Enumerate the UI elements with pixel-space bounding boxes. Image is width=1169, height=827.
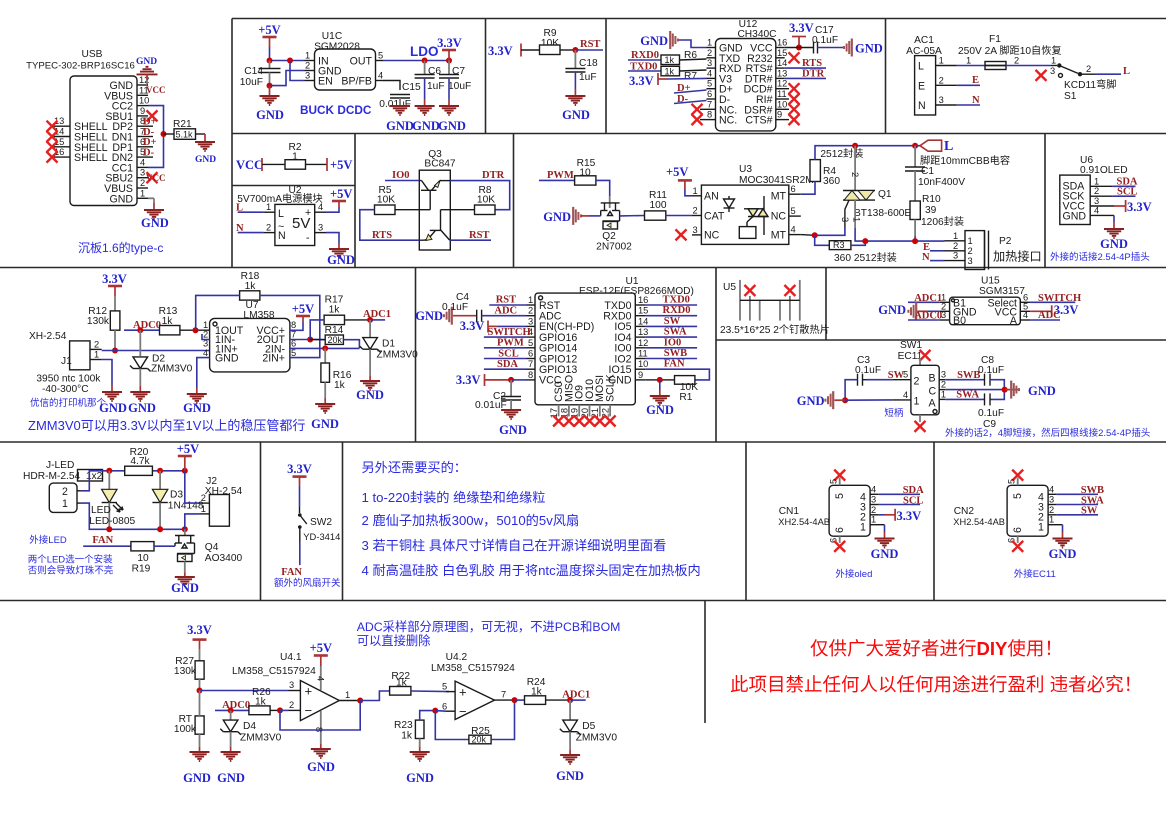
svg-text:J-LED: J-LED [46, 460, 74, 471]
svg-text:1: 1 [871, 515, 876, 525]
wire v-divider esp/u5 [715, 268, 717, 443]
ground C18 [565, 96, 585, 105]
wire v-divider cn1/cn2 [933, 442, 935, 601]
svg-text:ADC: ADC [494, 305, 517, 316]
svg-text:1: 1 [1094, 176, 1099, 186]
svg-text:1: 1 [140, 188, 145, 198]
wire Q2 drain to R11 [620, 215, 645, 217]
svg-text:2: 2 [953, 241, 958, 251]
svg-text:1: 1 [693, 186, 698, 196]
svg-text:沉板1.6的type-c: 沉板1.6的type-c [78, 240, 163, 255]
wire v-divider ch340/ac [885, 19, 887, 134]
svg-text:5: 5 [442, 682, 447, 692]
resistor R3 360 [815, 235, 830, 245]
svg-text:3.3V: 3.3V [629, 74, 654, 88]
wire pin3 EN up [290, 61, 305, 81]
svg-text:2: 2 [528, 306, 533, 316]
svg-text:OUT: OUT [350, 56, 373, 68]
svg-text:2: 2 [201, 493, 206, 503]
svg-text:VCC: VCC [236, 158, 263, 172]
svg-text:20k: 20k [328, 335, 343, 345]
wire pin2 up to +5V rail [82, 471, 185, 491]
svg-text:5V: 5V [292, 215, 310, 232]
svg-text:1: 1 [1038, 522, 1044, 534]
power 3.3V pin2 [879, 514, 885, 516]
svg-text:RST: RST [496, 295, 516, 306]
svg-text:BC847: BC847 [424, 159, 455, 170]
svg-text:EN: EN [318, 76, 333, 88]
gate + MT paths [845, 200, 849, 228]
svg-text:CTS#: CTS# [745, 115, 772, 127]
ground flag right [1005, 389, 1019, 391]
svg-text:9: 9 [140, 106, 145, 116]
svg-text:4: 4 [871, 484, 876, 494]
svg-text:NC: NC [771, 211, 787, 223]
svg-text:0.1uF: 0.1uF [978, 365, 1004, 376]
svg-text:9: 9 [777, 110, 782, 120]
svg-text:额外的风扇开关: 额外的风扇开关 [274, 577, 341, 589]
transistor Q2 2N7002 [601, 203, 620, 229]
SEC_ESP [415, 276, 709, 437]
svg-text:ZMM3V0: ZMM3V0 [576, 733, 618, 744]
svg-text:7: 7 [501, 690, 506, 700]
svg-text:6: 6 [528, 349, 533, 359]
wire J1 pin2 main row [102, 350, 210, 352]
svg-text:3 若干铜柱 具体尺寸详情自己在开源详细说明里面看: 3 若干铜柱 具体尺寸详情自己在开源详细说明里面看 [362, 538, 667, 553]
svg-text:C7: C7 [452, 66, 465, 77]
svg-text:ADC采样部分原理图，可无视，不进PCB和BOM: ADC采样部分原理图，可无视，不进PCB和BOM [357, 619, 621, 634]
svg-text:GND: GND [109, 193, 133, 205]
svg-text:−: − [305, 703, 313, 718]
svg-text:ADC0: ADC0 [222, 700, 250, 711]
svg-text:SWA: SWA [664, 327, 687, 338]
wire h-divider top [232, 18, 1166, 20]
svg-text:TYPEC-302-BRP16SC16: TYPEC-302-BRP16SC16 [26, 61, 135, 72]
node X pin7 [692, 104, 703, 115]
diode D2 ZMM3V0 zener [139, 330, 141, 356]
ground pin3 [326, 233, 339, 243]
wire R5 left down to RTS row [360, 210, 420, 241]
svg-text:EC11: EC11 [898, 351, 923, 362]
svg-text:D4: D4 [243, 721, 256, 732]
svg-text:GND: GND [327, 253, 355, 267]
svg-text:1k: 1k [401, 731, 413, 742]
svg-text:3.3V: 3.3V [1127, 200, 1152, 214]
svg-text:GND: GND [356, 388, 384, 402]
svg-text:两个LED选一个安装: 两个LED选一个安装 [28, 554, 113, 566]
svg-text:360 2512封装: 360 2512封装 [834, 251, 897, 264]
svg-text:此项目禁止任何人以任何用途进行盈利 违者必究！: 此项目禁止任何人以任何用途进行盈利 违者必究！ [730, 674, 1142, 695]
svg-text:SCLK: SCLK [605, 374, 617, 402]
svg-text:A: A [929, 398, 937, 410]
svg-text:0.91OLED: 0.91OLED [1080, 165, 1128, 176]
node X pin10 [789, 104, 800, 115]
svg-text:1k: 1k [665, 55, 675, 65]
svg-text:MT: MT [771, 230, 787, 242]
resistor R10 39 vertical [910, 201, 920, 220]
SEC_CH340 [628, 19, 883, 131]
svg-text:KCD11弯脚: KCD11弯脚 [1064, 78, 1116, 91]
wire pin7 2OUT [290, 339, 324, 341]
svg-text:+5V: +5V [310, 641, 332, 655]
svg-text:GND: GND [183, 771, 211, 785]
svg-text:AC1: AC1 [914, 35, 934, 46]
triac inside U3 [739, 196, 768, 238]
node X pin3 [147, 172, 158, 183]
svg-text:1: 1 [266, 202, 271, 212]
svg-text:GND: GND [412, 119, 440, 133]
svg-text:AO3400: AO3400 [205, 553, 243, 564]
npn top inside Q3 [419, 181, 450, 210]
svg-text:2IN+: 2IN+ [262, 353, 285, 365]
svg-text:4: 4 [203, 348, 208, 358]
svg-text:SGM3157: SGM3157 [979, 286, 1025, 297]
svg-text:FAN: FAN [92, 535, 113, 546]
svg-text:1uF: 1uF [579, 72, 597, 83]
svg-text:F1: F1 [989, 34, 1001, 45]
wire h-divider r2/u2 [232, 185, 355, 187]
svg-text:1 to-220封装的 绝缘垫和绝缘粒: 1 to-220封装的 绝缘垫和绝缘粒 [362, 490, 546, 505]
svg-text:1: 1 [707, 38, 712, 48]
ground flag Q2 source [573, 207, 581, 225]
svg-text:8: 8 [528, 370, 533, 380]
svg-text:3.3V: 3.3V [102, 272, 127, 286]
node X pin9 [147, 110, 158, 121]
svg-text:J1: J1 [61, 356, 72, 367]
svg-text:1206封装: 1206封装 [921, 215, 964, 228]
svg-text:否则会导致灯珠不亮: 否则会导致灯珠不亮 [28, 565, 114, 577]
svg-text:GND: GND [256, 108, 284, 122]
svg-text:4: 4 [318, 202, 323, 212]
svg-text:1uF: 1uF [427, 81, 445, 92]
svg-text:LED: LED [91, 505, 111, 516]
svg-text:N: N [922, 252, 930, 263]
SEC_LM358 [28, 271, 418, 433]
svg-text:5: 5 [1012, 493, 1024, 499]
svg-text:2: 2 [1094, 186, 1099, 196]
svg-text:GND: GND [217, 771, 245, 785]
svg-text:3: 3 [318, 223, 323, 233]
node X pin11 [789, 94, 800, 105]
svg-text:XH2.54-4AB: XH2.54-4AB [953, 517, 1005, 527]
svg-text:2: 2 [1049, 505, 1054, 515]
svg-text:14: 14 [777, 58, 787, 68]
pnp bottom inside Q3 [419, 210, 450, 241]
svg-text:3: 3 [968, 256, 973, 266]
svg-text:SW2: SW2 [310, 517, 332, 528]
svg-text:2: 2 [707, 48, 712, 58]
svg-text:5: 5 [707, 79, 712, 89]
svg-text:3.3V: 3.3V [287, 462, 312, 476]
ground pin9 [659, 380, 661, 390]
svg-text:-40-300°C: -40-300°C [42, 384, 89, 395]
wire pin2 GND to C14 node [270, 71, 305, 86]
ground flag C17 [844, 39, 852, 57]
svg-text:ZMM3V0: ZMM3V0 [151, 364, 193, 375]
svg-text:CN2: CN2 [954, 506, 975, 517]
svg-text:100k: 100k [174, 724, 197, 735]
resistor R25 20k feedback [435, 711, 469, 740]
svg-text:IO0: IO0 [664, 337, 682, 348]
svg-text:6: 6 [707, 89, 712, 99]
svg-text:4: 4 [1023, 310, 1028, 320]
wire h-divider row4/row5 [0, 600, 1166, 602]
svg-text:1: 1 [860, 522, 866, 534]
svg-text:YD-3414: YD-3414 [303, 531, 340, 542]
svg-text:4: 4 [316, 676, 326, 681]
svg-text:S1: S1 [1064, 91, 1077, 102]
svg-text:GND: GND [878, 303, 906, 317]
svg-text:3: 3 [840, 217, 850, 222]
svg-text:C1: C1 [921, 166, 934, 177]
wire h-divider U15/SW1 [716, 339, 1166, 341]
svg-text:GND: GND [141, 216, 169, 230]
wire main row to pin3 [200, 690, 289, 692]
SEC_R9 [488, 28, 603, 122]
diode D4 ZMM3V0 zener [230, 710, 232, 720]
svg-text:3.3V: 3.3V [460, 319, 485, 333]
svg-text:SWB: SWB [664, 348, 687, 359]
wire CC2/CC1 bracket to R21 [148, 106, 164, 168]
ground C7 [439, 106, 459, 115]
wire h-divider row3/row4 [0, 441, 1166, 443]
svg-text:N: N [278, 230, 286, 242]
svg-text:GND: GND [311, 417, 339, 431]
svg-text:2: 2 [939, 75, 944, 85]
svg-text:3: 3 [693, 225, 698, 235]
svg-text:RST: RST [580, 39, 600, 50]
SEC_BUCK [240, 23, 471, 133]
ground C15 [390, 106, 410, 115]
svg-text:R19: R19 [132, 564, 151, 575]
svg-text:5: 5 [791, 206, 796, 216]
svg-text:+5V: +5V [666, 165, 688, 179]
svg-text:2: 2 [1086, 64, 1091, 74]
svg-text:LM358_C5157924: LM358_C5157924 [232, 666, 316, 677]
svg-text:GND: GND [1028, 384, 1056, 398]
wire OUT rail 3.3V [383, 60, 449, 62]
svg-text:B: B [929, 373, 936, 385]
svg-text:R10: R10 [922, 194, 941, 205]
ground at R21 [204, 134, 206, 142]
svg-text:E: E [918, 80, 925, 92]
svg-text:5V700mA电源模块: 5V700mA电源模块 [237, 192, 323, 205]
svg-text:LM358_C5157924: LM358_C5157924 [431, 663, 515, 674]
svg-text:Q4: Q4 [205, 542, 219, 553]
wire pin6 to R4 [801, 182, 815, 195]
svg-text:DTR: DTR [482, 170, 505, 181]
SEC_OPTO [539, 139, 1042, 270]
ground at pin1 [148, 197, 154, 199]
SEC_USB [26, 49, 216, 255]
svg-text:1: 1 [305, 51, 310, 61]
SEC_U6 [1050, 155, 1152, 263]
svg-text:4: 4 [1049, 484, 1054, 494]
svg-text:13: 13 [638, 327, 648, 337]
svg-text:130k: 130k [174, 666, 197, 677]
svg-text:3: 3 [305, 71, 310, 81]
wire R15 to Q2 gate [596, 180, 610, 196]
svg-text:ADC1: ADC1 [363, 309, 391, 320]
svg-text:GND: GND [855, 42, 883, 56]
wire pin2 1IN- up feedback [202, 334, 210, 340]
svg-text:BT138-600E: BT138-600E [854, 208, 911, 219]
wire v-divider opamp/warn [704, 601, 706, 724]
svg-text:10uF: 10uF [448, 81, 471, 92]
svg-text:3: 3 [1050, 66, 1055, 76]
svg-text:5: 5 [528, 338, 533, 348]
svg-text:C15: C15 [402, 82, 421, 93]
svg-text:D-: D- [143, 147, 155, 158]
svg-text:MT: MT [771, 191, 787, 203]
svg-text:ADC0: ADC0 [133, 320, 161, 331]
svg-text:12: 12 [777, 79, 787, 89]
svg-text:BUCK DCDC: BUCK DCDC [300, 103, 372, 117]
ground pin4 [1113, 215, 1115, 222]
svg-text:3: 3 [140, 168, 145, 178]
svg-text:4 耐高温硅胶 白色乳胶 用于将ntc温度探头固定在加热板内: 4 耐高温硅胶 白色乳胶 用于将ntc温度探头固定在加热板内 [362, 562, 701, 578]
svg-text:10K: 10K [377, 195, 395, 206]
bottom pins 17-22 [559, 405, 611, 417]
svg-text:1: 1 [201, 504, 206, 514]
svg-text:4: 4 [791, 225, 796, 235]
resistor R7 1k [661, 66, 680, 76]
svg-text:P2: P2 [999, 236, 1012, 247]
svg-text:250V 2A 脚距10自恢复: 250V 2A 脚距10自恢复 [958, 44, 1062, 57]
svg-text:U3: U3 [739, 164, 752, 175]
svg-text:4: 4 [707, 68, 712, 78]
svg-text:4: 4 [140, 157, 145, 167]
svg-text:2: 2 [941, 380, 946, 390]
svg-text:GND: GND [386, 119, 414, 133]
node X pin12 [789, 83, 800, 94]
svg-text:5: 5 [291, 348, 296, 358]
svg-text:R3: R3 [833, 240, 845, 250]
node X heatsink [744, 285, 755, 296]
wire pin6 2IN- row [290, 347, 360, 349]
svg-text:1: 1 [1051, 56, 1056, 66]
node X pin8 [692, 114, 703, 125]
svg-text:ADC1: ADC1 [562, 690, 590, 701]
pins right [939, 380, 945, 400]
svg-text:LED-0805: LED-0805 [89, 516, 135, 527]
svg-text:8: 8 [707, 110, 712, 120]
svg-text:C14: C14 [244, 66, 263, 77]
diode inside U3 [724, 196, 735, 212]
svg-text:10: 10 [139, 96, 149, 106]
SEC_SW2 [274, 462, 341, 589]
resistor R19 10 [131, 542, 154, 551]
svg-text:1: 1 [62, 498, 68, 510]
svg-text:可以直接删除: 可以直接删除 [357, 633, 431, 648]
svg-text:-: - [306, 232, 310, 244]
svg-text:1: 1 [528, 295, 533, 305]
resistor R1 10K [675, 376, 695, 385]
ground flag pin1 [678, 40, 707, 48]
node C pin2 wire [945, 389, 1005, 391]
svg-text:2: 2 [850, 172, 860, 177]
svg-text:+: + [305, 684, 313, 699]
SEC_AC [906, 34, 1130, 115]
svg-text:2: 2 [140, 178, 145, 188]
pins right 12..1 [137, 85, 153, 198]
svg-text:10nF400V: 10nF400V [918, 177, 965, 188]
SEC_NOTES [362, 460, 701, 578]
svg-text:GND: GND [183, 401, 211, 415]
svg-text:SHELL: SHELL [74, 152, 108, 164]
svg-text:FAN: FAN [281, 567, 302, 578]
svg-text:130k: 130k [87, 316, 110, 327]
svg-text:100: 100 [650, 200, 667, 211]
transistor Q4 AO3400 [184, 529, 186, 535]
svg-text:1k: 1k [665, 66, 675, 76]
svg-text:SW1: SW1 [900, 340, 922, 351]
svg-text:2: 2 [693, 206, 698, 216]
svg-text:GND: GND [543, 210, 571, 224]
SEC_U5U15 [720, 276, 1081, 337]
svg-text:外接LED: 外接LED [29, 534, 67, 546]
wire pin4 to gate [801, 234, 815, 237]
svg-text:2: 2 [914, 376, 920, 388]
svg-text:L: L [1123, 66, 1130, 77]
svg-text:1k: 1k [334, 380, 346, 391]
svg-text:NC.: NC. [719, 115, 737, 127]
svg-text:外接EC11: 外接EC11 [1014, 568, 1056, 580]
svg-text:RTS: RTS [372, 230, 392, 241]
svg-text:GND: GND [1063, 211, 1087, 223]
svg-text:3.3V: 3.3V [456, 373, 481, 387]
svg-text:6: 6 [791, 184, 796, 194]
svg-text:GND: GND [871, 547, 899, 561]
svg-text:2 鹿仙子加热板300w，5010的5v风扇: 2 鹿仙子加热板300w，5010的5v风扇 [362, 512, 580, 528]
svg-text:10K: 10K [477, 195, 495, 206]
svg-text:RST: RST [469, 230, 489, 241]
svg-text:13: 13 [777, 68, 787, 78]
svg-text:0.1uF: 0.1uF [442, 302, 468, 313]
bottom rail [82, 503, 185, 529]
ground pin1 [884, 525, 886, 532]
svg-text:5: 5 [378, 51, 383, 61]
svg-text:6: 6 [834, 527, 846, 533]
net flag L [920, 140, 942, 151]
svg-text:3.3V: 3.3V [897, 509, 922, 523]
svg-text:−: − [459, 704, 467, 719]
SEC_JLED [23, 442, 243, 595]
svg-text:外接的话接2.54-4P插头: 外接的话接2.54-4P插头 [1050, 251, 1150, 263]
svg-text:VCC: VCC [146, 173, 166, 183]
svg-text:另外还需要买的：: 另外还需要买的： [362, 460, 468, 475]
wire v-divider r9/ch340 [605, 19, 607, 134]
svg-text:N: N [918, 100, 926, 112]
svg-text:CAT: CAT [704, 211, 725, 223]
svg-text:GND: GND [646, 403, 674, 417]
svg-text:+5V: +5V [330, 187, 352, 201]
svg-text:外接oled: 外接oled [835, 568, 872, 580]
svg-text:VCC: VCC [146, 85, 166, 95]
wire v-divider sw2/notes [342, 442, 344, 601]
svg-text:U4.2: U4.2 [446, 652, 468, 663]
svg-text:D1: D1 [382, 339, 395, 350]
svg-text:ZMM3V0: ZMM3V0 [377, 350, 419, 361]
svg-text:GND: GND [1049, 547, 1077, 561]
svg-text:10uF: 10uF [240, 77, 263, 88]
svg-text:12: 12 [638, 338, 648, 348]
svg-text:1k: 1k [329, 305, 341, 316]
svg-text:14: 14 [638, 316, 648, 326]
svg-text:SW: SW [664, 316, 681, 327]
power +5V [326, 158, 328, 171]
svg-text:3: 3 [1049, 495, 1054, 505]
